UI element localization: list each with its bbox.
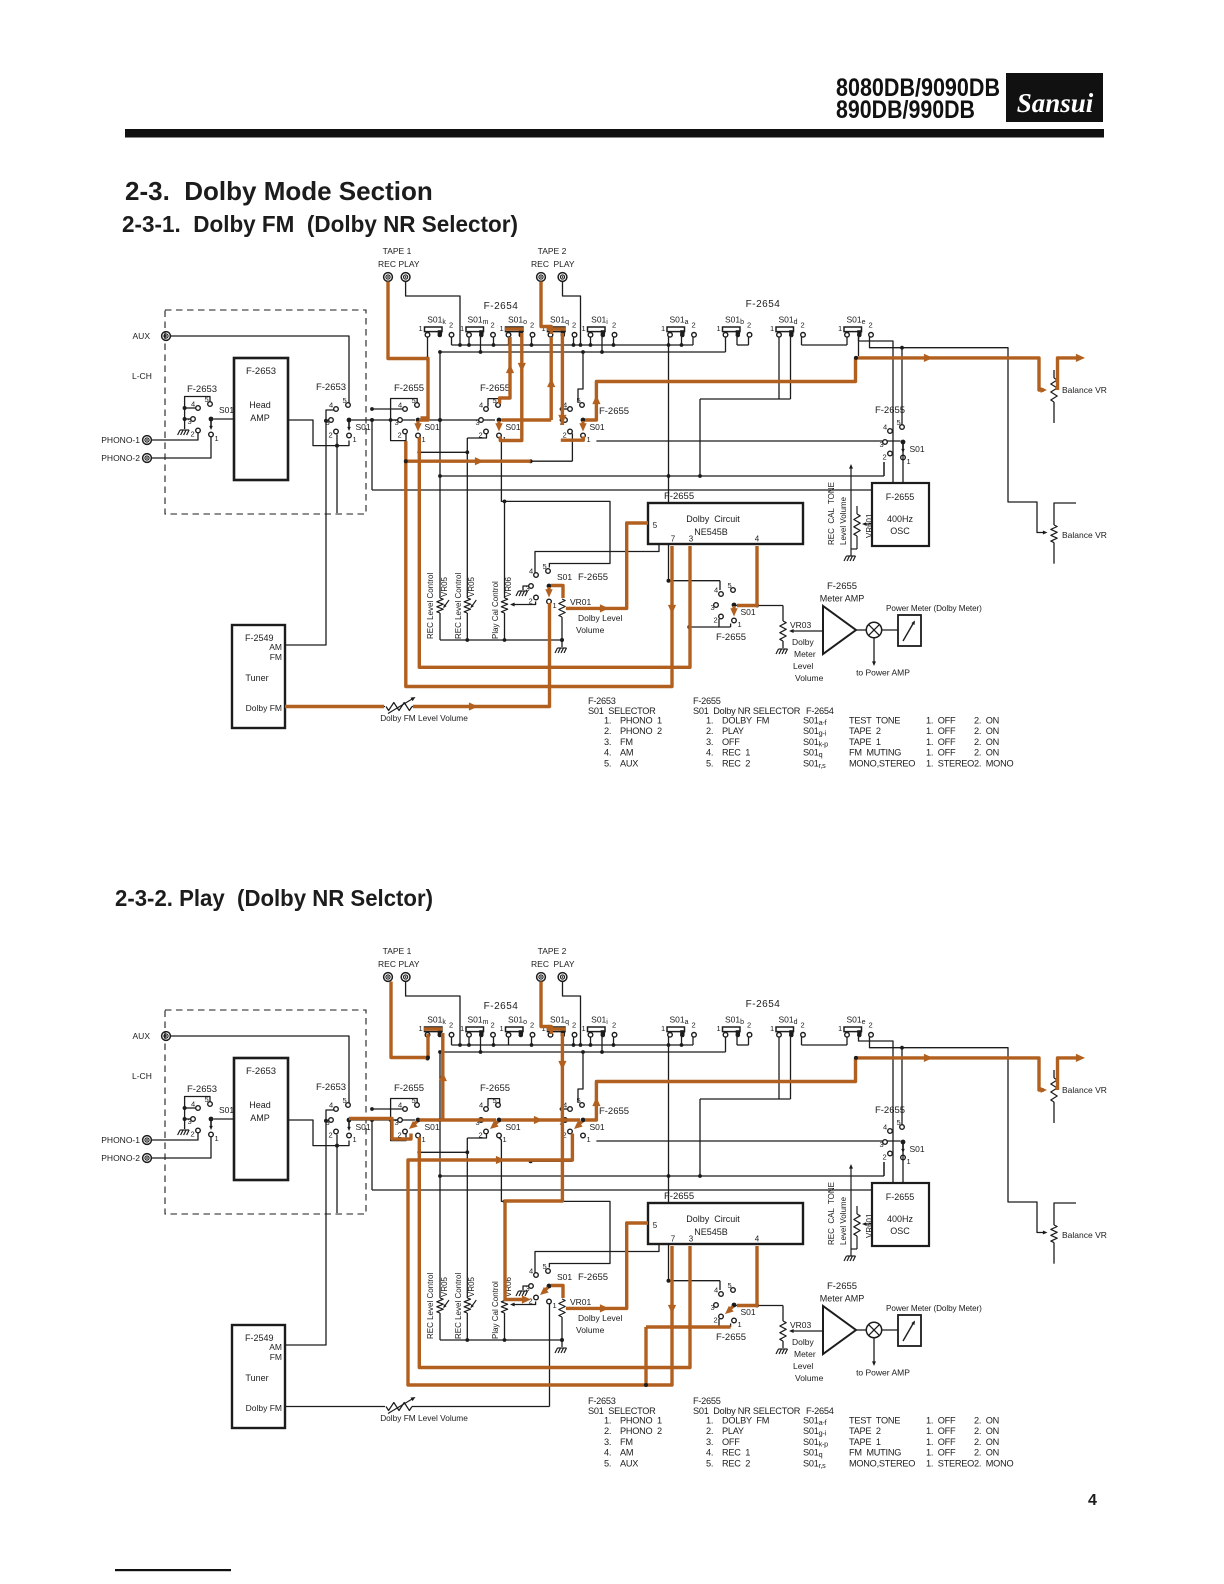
bracket wires NR selector 1 (dolby fm diagram) [370, 399, 417, 441]
svg-text:4: 4 [529, 567, 533, 576]
svg-text:5.: 5. [604, 758, 611, 768]
svg-text:1: 1 [907, 1157, 911, 1166]
rotary switch S01 F-2653 head-amp output (play diagram) [326, 1096, 371, 1144]
svg-text:TAPE 2: TAPE 2 [538, 946, 567, 956]
highlighted path TAPE1 REC record feed (play) [391, 982, 430, 1060]
svg-text:1. OFF: 1. OFF [926, 716, 956, 726]
svg-text:PHONO 1: PHONO 1 [620, 1416, 662, 1426]
svg-text:1: 1 [422, 435, 426, 444]
svg-text:AUX: AUX [620, 758, 638, 768]
stub wires NR selector 3 (play diagram) [560, 1052, 583, 1122]
resistor Balance VR lower (dolby fm diagram) [1051, 503, 1107, 564]
svg-text:5: 5 [543, 562, 547, 571]
svg-text:1: 1 [738, 1320, 742, 1329]
highlighted path dolby pin7 output loop (play) [408, 1134, 676, 1386]
svg-text:1: 1 [587, 435, 591, 444]
highlighted path NR1 contact1 to dolby pin3 (play) [419, 1137, 690, 1368]
svg-text:F-2653: F-2653 [588, 696, 616, 706]
svg-text:1: 1 [353, 435, 357, 444]
svg-text:S01 Dolby NR SELECTOR: S01 Dolby NR SELECTOR [693, 706, 801, 716]
block 400Hz OSC F-2655 (dolby fm diagram) [872, 483, 929, 546]
svg-text:1: 1 [215, 434, 219, 443]
svg-text:S01r,s: S01r,s [803, 758, 826, 770]
block Dolby Circuit NE545B F-2655 (dolby fm diagram) [648, 491, 803, 544]
svg-text:2: 2 [572, 321, 576, 330]
ground rec cal tone (play diagram) [844, 1256, 856, 1261]
svg-text:2. ON: 2. ON [974, 1426, 999, 1436]
highlighted path meter selector feed (play) [644, 1327, 731, 1387]
svg-text:REC: REC [378, 959, 396, 969]
wire output bus (dolby fm diagram) [372, 489, 893, 491]
svg-text:S01: S01 [219, 405, 234, 415]
svg-text:S01: S01 [506, 422, 521, 432]
dashed input-section boundary (dolby fm diagram) [165, 310, 366, 514]
wire S01e terminal2 to output junction (dolby fm) [858, 337, 860, 356]
wire tuner AM FM to contacts 3 4 (play diagram) [285, 1110, 334, 1345]
svg-text:Play Cal Control: Play Cal Control [491, 1281, 500, 1339]
svg-text:TAPE 2: TAPE 2 [849, 1426, 881, 1436]
connector AUX jack (dolby fm diagram) [133, 331, 171, 341]
svg-text:Power Meter (Dolby Meter): Power Meter (Dolby Meter) [886, 1304, 982, 1313]
svg-text:1: 1 [717, 1024, 721, 1033]
wire common line to test-tone switch (play diagram) [596, 1140, 900, 1142]
variable resistor VR601 (dolby fm diagram) [851, 506, 874, 549]
ground NR4 contact 3 (play diagram) [516, 1286, 529, 1296]
wire S01e aux contact to balance (play diagram) [870, 1037, 1048, 1235]
svg-text:4: 4 [398, 1101, 402, 1110]
svg-text:2: 2 [714, 616, 718, 625]
wire TAPE1 PLAY to switch bus (play diagram) [406, 982, 460, 1046]
svg-text:NE545B: NE545B [694, 527, 728, 537]
svg-text:AM: AM [269, 1342, 282, 1352]
slide switch S01e (dolby fm diagram) [838, 315, 873, 338]
wiper (dolby fm diagram) [348, 422, 350, 429]
footer line [115, 1569, 231, 1571]
svg-text:Meter: Meter [794, 649, 816, 659]
svg-text:1: 1 [582, 1024, 586, 1033]
svg-text:TEST TONE: TEST TONE [849, 1416, 900, 1426]
svg-text:F-2655: F-2655 [827, 1281, 857, 1292]
svg-text:S01: S01 [557, 1272, 572, 1282]
wire contact5 riser test-tone (play diagram) [901, 1048, 903, 1125]
svg-text:1: 1 [738, 620, 742, 629]
highlighted path tuner dolby-fm to NR4 contact1 (dolby fm) [285, 603, 550, 711]
svg-text:F-2655: F-2655 [578, 572, 608, 583]
svg-text:7: 7 [671, 535, 676, 544]
svg-text:F-2655: F-2655 [875, 405, 905, 416]
wiper NR2 to contact 2 (play) [494, 1122, 498, 1126]
svg-text:2. ON: 2. ON [974, 1437, 999, 1447]
highlight S01o slide bar (dolby fm) [505, 327, 524, 330]
wire AUX to selector contact 5 (dolby fm diagram) [171, 336, 349, 403]
svg-text:PLAY: PLAY [722, 1426, 744, 1436]
highlighted path TAPE2 REC to S01q (play) [541, 982, 551, 1035]
ground control bus (dolby fm diagram) [440, 638, 564, 647]
svg-text:1. OFF: 1. OFF [926, 1426, 956, 1436]
svg-text:1. OFF: 1. OFF [926, 748, 956, 758]
wiper NR1 to contact 2 (play) [413, 1122, 417, 1126]
svg-text:to Power AMP: to Power AMP [856, 668, 910, 678]
svg-text:1. OFF: 1. OFF [926, 737, 956, 747]
lamp indicator circle (play diagram) [856, 1322, 882, 1337]
svg-text:S01: S01 [425, 422, 440, 432]
svg-text:F-2653: F-2653 [588, 1396, 616, 1406]
svg-text:S01: S01 [356, 422, 371, 432]
table F-2654 switch functions (dolby fm diagram) [803, 706, 1013, 770]
svg-text:Volume: Volume [795, 673, 824, 683]
svg-text:PHONO 1: PHONO 1 [620, 716, 662, 726]
svg-text:5: 5 [343, 396, 347, 405]
variable resistor VR05 rec level 2 (dolby fm diagram) [454, 438, 476, 640]
svg-text:Dolby FM: Dolby FM [246, 703, 282, 713]
svg-text:4: 4 [479, 1101, 483, 1110]
svg-text:F-2655: F-2655 [480, 1083, 510, 1094]
highlighted path NR2 common to S01q and TAPE2 REC (dolby fm) [502, 282, 556, 421]
slide switch S01b (play diagram) [717, 1015, 752, 1038]
block Head AMP F-2653 (dolby fm diagram) [234, 358, 288, 480]
svg-text:2: 2 [191, 1130, 195, 1139]
wire head amp output to contacts 1 and 2 (play diagram) [288, 1120, 349, 1213]
wire S01k terminal 1 to junction (dolby fm diagram) [426, 337, 430, 361]
svg-text:1: 1 [587, 1135, 591, 1144]
wire rec-level tee (play diagram) [417, 1150, 469, 1154]
svg-text:FM: FM [620, 737, 633, 747]
wiper NR3 to contact 2 (play) [578, 1122, 582, 1126]
svg-text:1: 1 [553, 1301, 557, 1310]
resistor REC CAL TONE level (dolby fm diagram) [827, 464, 853, 556]
svg-text:5: 5 [897, 418, 901, 427]
svg-text:3: 3 [689, 535, 694, 544]
svg-text:2: 2 [529, 1297, 533, 1306]
wiper test tone switch (play diagram) [902, 1144, 904, 1151]
variable resistor VR03 dolby meter level (dolby fm diagram) [780, 620, 824, 683]
svg-text:Balance VR: Balance VR [1062, 385, 1107, 395]
resistor Balance VR lower (play diagram) [1051, 1203, 1107, 1264]
svg-text:3: 3 [476, 418, 480, 427]
slide switch S01q (play diagram) [542, 1015, 577, 1038]
svg-text:2: 2 [530, 1021, 534, 1030]
svg-text:2: 2 [191, 430, 195, 439]
svg-text:2: 2 [529, 597, 533, 606]
svg-text:Dolby FM Level Volume: Dolby FM Level Volume [380, 713, 468, 723]
wire S01k terminal 1 to junction (play diagram) [426, 1037, 430, 1061]
highlighted path dolby pin4 to meter selector (play) [737, 1246, 757, 1306]
wire S01d terminals down (dolby fm diagram) [698, 337, 790, 478]
op-amp Meter AMP F-2655 (dolby fm diagram) [820, 581, 865, 654]
wire S01a terminal1 to meter contacts (play diagram) [667, 1045, 721, 1290]
ground rec cal tone (dolby fm diagram) [844, 556, 856, 561]
svg-text:2: 2 [572, 1021, 576, 1030]
svg-text:Tuner: Tuner [245, 673, 268, 683]
variable level symbol Dolby FM Level Volume (dolby fm diagram) [380, 697, 468, 723]
highlighted path VR01 wiper to dolby pin5 (play) [566, 1223, 648, 1313]
svg-text:F-2654: F-2654 [484, 301, 519, 312]
svg-text:1. OFF: 1. OFF [926, 1437, 956, 1447]
highlighted path S01o to NR2 contact5 (dolby fm) [500, 337, 514, 404]
svg-text:VR05: VR05 [467, 1276, 476, 1297]
wire S01e terminal 2 to output (play diagram) [859, 1037, 894, 1190]
wiper NR1 to contact 1 (dolby fm) [416, 421, 419, 426]
wire output bus (play diagram) [372, 1189, 893, 1191]
variable resistor VR05 rec level 1 (dolby fm diagram) [426, 352, 449, 640]
bracket NR4 contact 4 (dolby fm diagram) [535, 544, 659, 573]
wire AUX to selector contact 5 (play diagram) [171, 1036, 349, 1103]
wiper meter selector to contact 2 (play) [729, 1307, 733, 1311]
svg-text:5.: 5. [706, 758, 713, 768]
svg-text:1: 1 [353, 1135, 357, 1144]
svg-text:Balance VR: Balance VR [1062, 1085, 1107, 1095]
svg-text:PLAY: PLAY [553, 259, 574, 269]
svg-text:1: 1 [661, 1024, 665, 1033]
rotary test-tone switch S01 F-2655 (dolby fm diagram) [880, 418, 925, 466]
svg-text:5: 5 [412, 1096, 416, 1105]
dashed input-section boundary (play diagram) [165, 1010, 366, 1214]
highlighted path TAPE1 REC record feed (dolby fm) [388, 282, 428, 421]
svg-text:F-2654: F-2654 [806, 706, 834, 716]
svg-text:S01 SELECTOR: S01 SELECTOR [588, 706, 656, 716]
table F-2655 dolby NR selector positions (play diagram) [693, 1396, 801, 1468]
svg-text:REC Level Control: REC Level Control [426, 1273, 435, 1339]
slide switch S01k (dolby fm diagram) [419, 315, 454, 338]
wire branch to output line (play diagram) [371, 1120, 373, 1190]
svg-text:Dolby Circuit: Dolby Circuit [686, 1214, 740, 1224]
svg-text:VR01: VR01 [570, 597, 592, 607]
svg-text:1: 1 [215, 1134, 219, 1143]
svg-text:890DB/990DB: 890DB/990DB [836, 96, 975, 124]
svg-text:2: 2 [329, 1131, 333, 1140]
svg-text:2: 2 [801, 321, 805, 330]
connector TAPE 1 REC jack (play diagram) [378, 946, 412, 981]
svg-text:FM: FM [270, 652, 282, 662]
wire TAPE1 PLAY to switch bus (dolby fm diagram) [406, 282, 460, 346]
svg-text:TAPE 1: TAPE 1 [849, 737, 881, 747]
wire common bus to NR selectors (dolby fm diagram) [352, 418, 496, 422]
svg-text:4: 4 [883, 423, 887, 432]
svg-text:1: 1 [422, 1135, 426, 1144]
wire S01e terminal 1 (dolby fm diagram) [802, 337, 848, 345]
svg-text:1: 1 [500, 324, 504, 333]
highlighted main play line (play) [349, 1119, 411, 1140]
svg-text:Balance VR: Balance VR [1062, 530, 1107, 540]
svg-text:4: 4 [191, 1100, 195, 1109]
svg-text:1: 1 [419, 1024, 423, 1033]
bracket wires NR selector 2 (dolby fm diagram) [467, 399, 499, 438]
svg-text:5.: 5. [604, 1458, 611, 1468]
variable resistor VR06 play cal (play diagram) [491, 1200, 513, 1341]
wiper NR2 to contact 1 (dolby fm) [497, 421, 500, 426]
svg-text:2. ON: 2. ON [974, 1416, 999, 1426]
wire branch to output line (dolby fm diagram) [371, 420, 373, 490]
slide switch S01k (play diagram) [419, 1015, 454, 1038]
svg-text:2: 2 [612, 1021, 616, 1030]
svg-text:TAPE 1: TAPE 1 [383, 946, 412, 956]
wire NR2 contact1 to meter-switch brackets (dolby fm diagram) [499, 438, 610, 568]
rotary switch S01 F-2653 head-amp output (dolby fm diagram) [326, 396, 371, 444]
svg-text:AM: AM [620, 1448, 633, 1458]
slide switch S01m (play diagram) [460, 1015, 495, 1038]
wire tuner AM FM to contacts 3 4 (dolby fm diagram) [285, 410, 334, 645]
svg-text:F-2655: F-2655 [827, 581, 857, 592]
rotary Dolby NR selector S01 F-2655 number 3 (play diagram) [560, 1096, 605, 1144]
rotary input selector S01 F-2653 (play diagram) [188, 1095, 235, 1143]
wiper NR4 to contact 1 (dolby fm) [547, 587, 550, 592]
svg-text:2: 2 [714, 1316, 718, 1325]
svg-text:4.: 4. [604, 1448, 611, 1458]
highlighted path NR3 common to balance VR (play) [585, 1054, 1085, 1120]
svg-text:Volume: Volume [576, 625, 605, 635]
svg-text:F-2655: F-2655 [716, 1332, 746, 1343]
svg-text:F-2653: F-2653 [316, 382, 346, 393]
connector PHONO-1 jack (play diagram) [101, 1135, 151, 1145]
svg-text:VR06: VR06 [504, 576, 513, 597]
logo Sansui [1006, 73, 1103, 122]
svg-text:2: 2 [530, 321, 534, 330]
svg-text:PHONO-1: PHONO-1 [101, 1135, 140, 1145]
svg-text:1: 1 [717, 324, 721, 333]
svg-text:2.: 2. [604, 1426, 611, 1436]
svg-text:2: 2 [692, 321, 696, 330]
highlighted path dolby pin4 to meter selector (dolby fm) [737, 546, 757, 606]
svg-text:VR05: VR05 [440, 1276, 449, 1297]
svg-text:OFF: OFF [722, 1437, 740, 1447]
svg-text:1.: 1. [706, 1416, 713, 1426]
svg-text:2.: 2. [604, 726, 611, 736]
svg-text:3.: 3. [706, 1437, 713, 1447]
wire PHONO-1 to contact 2 (dolby fm diagram) [152, 433, 198, 440]
svg-text:F-2655: F-2655 [394, 383, 424, 394]
svg-text:2-3. Dolby Mode Section: 2-3. Dolby Mode Section [125, 176, 433, 206]
svg-text:AUX: AUX [133, 1031, 151, 1041]
svg-text:1. STEREO: 1. STEREO [926, 1458, 974, 1468]
svg-text:F-2655: F-2655 [693, 696, 721, 706]
slide switch S01o (play diagram) [500, 1015, 535, 1038]
svg-text:S01: S01 [910, 1144, 925, 1154]
variable resistor VR601 (play diagram) [851, 1206, 874, 1249]
svg-text:F-2653: F-2653 [187, 1084, 217, 1095]
svg-text:TAPE 2: TAPE 2 [538, 246, 567, 256]
rotary meter selector S01 F-2655 (play diagram) [711, 1281, 756, 1329]
wire PHONO-2 to contact 1 (play diagram) [152, 1138, 211, 1159]
svg-text:1: 1 [907, 457, 911, 466]
wire rec-level tee (dolby fm diagram) [417, 450, 469, 454]
svg-text:F-2654: F-2654 [484, 1001, 519, 1012]
svg-text:S01: S01 [910, 444, 925, 454]
svg-text:F-2655: F-2655 [664, 491, 694, 502]
svg-text:Dolby: Dolby [792, 1337, 814, 1347]
svg-text:F-2655: F-2655 [599, 406, 629, 417]
wire tuner dolby fm line (dolby fm diagram) [285, 604, 550, 707]
svg-text:4: 4 [714, 1286, 718, 1295]
svg-text:PHONO-1: PHONO-1 [101, 435, 140, 445]
svg-text:F-2654: F-2654 [746, 299, 781, 310]
wiper (play diagram) [348, 1122, 350, 1129]
block Tuner F-2549 (dolby fm diagram) [232, 625, 285, 728]
svg-text:1. OFF: 1. OFF [926, 726, 956, 736]
svg-text:S01: S01 [741, 607, 756, 617]
wire common to oscillator (play diagram) [902, 1145, 904, 1184]
svg-text:Head: Head [249, 400, 271, 410]
wire TAPE2 PLAY to switch bus (play diagram) [563, 982, 581, 1046]
connector TAPE 1 REC jack (dolby fm diagram) [378, 246, 412, 281]
rotary Dolby NR selector S01 F-2655 number 2 (dolby fm diagram) [476, 396, 521, 444]
svg-text:2. ON: 2. ON [974, 748, 999, 758]
wire S01e terminal 1 (play diagram) [802, 1037, 848, 1045]
ground input selector (dolby fm diagram) [178, 430, 190, 435]
meter Power Meter Dolby Meter (play diagram) [882, 1304, 982, 1346]
wire S01a terminal1 to meter contacts (dolby fm diagram) [667, 345, 721, 590]
header model numbers [836, 74, 1000, 124]
svg-text:REC 1: REC 1 [722, 748, 750, 758]
svg-text:S01: S01 [590, 1122, 605, 1132]
svg-text:1: 1 [419, 324, 423, 333]
connector TAPE 2 REC jack (play diagram) [531, 946, 567, 981]
rotary input selector S01 F-2653 (dolby fm diagram) [188, 395, 235, 443]
svg-text:S01 SELECTOR: S01 SELECTOR [588, 1406, 656, 1416]
svg-text:TAPE 1: TAPE 1 [383, 246, 412, 256]
svg-text:S01: S01 [356, 1122, 371, 1132]
svg-text:2.: 2. [706, 726, 713, 736]
svg-text:REC: REC [378, 259, 396, 269]
svg-text:Level: Level [793, 1361, 813, 1371]
svg-text:1.: 1. [604, 716, 611, 726]
svg-text:Power Meter (Dolby Meter): Power Meter (Dolby Meter) [886, 604, 982, 613]
wire to power amp (play diagram) [856, 1338, 910, 1378]
wire VR06 wiper to NR4 contact 2 (dolby fm diagram) [510, 602, 536, 607]
svg-text:1: 1 [582, 324, 586, 333]
resistor Balance VR upper (play diagram) [1051, 1070, 1107, 1123]
svg-text:F-2654: F-2654 [806, 1406, 834, 1416]
svg-text:5: 5 [343, 1096, 347, 1105]
svg-text:2: 2 [883, 1153, 887, 1162]
svg-text:AMP: AMP [250, 413, 270, 423]
block Head AMP F-2653 (play diagram) [234, 1058, 288, 1180]
wire S01e terminal 2 to output (dolby fm diagram) [859, 337, 894, 490]
rotary Dolby NR selector S01 F-2655 number 1 (dolby fm diagram) [395, 396, 440, 444]
svg-text:3.: 3. [706, 737, 713, 747]
svg-text:NE545B: NE545B [694, 1227, 728, 1237]
wire S01d terminals down (play diagram) [698, 1037, 790, 1178]
table F-2653 selector positions (dolby fm diagram) [588, 696, 662, 768]
variable resistor VR05 rec level 1 (play diagram) [426, 1052, 449, 1340]
svg-text:1: 1 [838, 1024, 842, 1033]
svg-text:3: 3 [880, 1140, 884, 1149]
svg-text:1: 1 [770, 324, 774, 333]
slide switch S01d (dolby fm diagram) [770, 315, 805, 338]
block Tuner F-2549 (play diagram) [232, 1325, 285, 1428]
rotary test-tone switch S01 F-2655 (play diagram) [880, 1118, 925, 1166]
svg-text:2. ON: 2. ON [974, 737, 999, 747]
wire S01b terminals (dolby fm diagram) [737, 337, 749, 345]
svg-text:TAPE 1: TAPE 1 [849, 1437, 881, 1447]
svg-text:S01: S01 [590, 422, 605, 432]
svg-text:Meter AMP: Meter AMP [820, 594, 865, 604]
svg-text:MONO,STEREO: MONO,STEREO [849, 1458, 915, 1468]
svg-text:OSC: OSC [890, 526, 910, 536]
wire common bus to NR selectors (play diagram) [352, 1118, 496, 1122]
wiper NR4 to contact 2 (play) [544, 1288, 548, 1292]
svg-text:OSC: OSC [890, 1226, 910, 1236]
stub wires NR selector 3 (dolby fm diagram) [560, 352, 583, 422]
svg-text:MONO,STEREO: MONO,STEREO [849, 758, 915, 768]
svg-text:F-2655: F-2655 [664, 1191, 694, 1202]
svg-text:Balance VR: Balance VR [1062, 1230, 1107, 1240]
svg-text:1. STEREO: 1. STEREO [926, 758, 974, 768]
wire PHONO-1 to contact 2 (play diagram) [152, 1133, 198, 1140]
svg-text:5: 5 [493, 396, 497, 405]
svg-text:2: 2 [563, 431, 567, 440]
svg-text:F-2654: F-2654 [746, 999, 781, 1010]
highlight S01k slide bar (play) [424, 1027, 443, 1030]
